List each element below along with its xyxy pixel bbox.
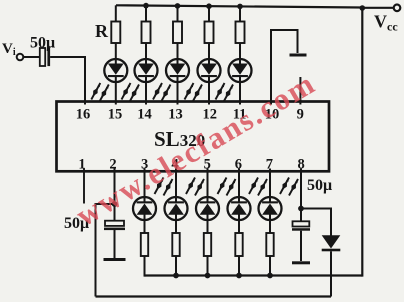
- wire LED to resistor R8: [207, 214, 209, 233]
- resistor R10 (bottom row, pin 7): [266, 233, 273, 256]
- LED bottom row at pin 6: [228, 197, 251, 220]
- wire pin 8 down: [300, 169, 302, 221]
- resistor R9 (bottom row, pin 6): [235, 233, 242, 256]
- wire pin 1 stub: [83, 169, 85, 204]
- wire resistor R4 to LED: [208, 43, 210, 65]
- svg-text:2: 2: [109, 157, 116, 173]
- wire resistor R1 to LED: [115, 43, 117, 65]
- wire pin 4 to LED: [175, 169, 177, 203]
- wire pin 3 to LED: [144, 169, 146, 203]
- light emission arrows of LED pin 5: [218, 178, 236, 196]
- wire LED cathode to pin 15: [115, 76, 117, 105]
- svg-text:14: 14: [137, 107, 152, 123]
- wire C2 to ground: [114, 230, 116, 258]
- wire LED cathode to pin 14: [145, 76, 147, 105]
- wire LED cathode to pin 12: [208, 76, 210, 105]
- ground symbol at pin 10: [290, 54, 307, 57]
- terminal Vcc: [394, 5, 401, 12]
- wire bottom rail: [96, 295, 332, 297]
- label SL320: [154, 127, 205, 151]
- wire rail to resistor R2: [145, 6, 147, 22]
- node junction dot at pin 8: [298, 206, 304, 212]
- light emission arrows of LED pin 13: [153, 83, 171, 101]
- resistor R2 (top row, pin 14): [142, 22, 151, 44]
- light emission arrows of LED pin 3: [155, 178, 173, 196]
- wire resistor R9 to mid rail: [238, 256, 240, 277]
- wire resistor R7 to mid rail: [175, 256, 177, 277]
- label Vi: [2, 41, 16, 58]
- svg-text:16: 16: [76, 107, 91, 123]
- svg-text:R: R: [95, 21, 109, 41]
- wire resistor R10 to mid rail: [269, 256, 271, 277]
- wire pin 5 to LED: [207, 169, 209, 203]
- svg-text:15: 15: [108, 107, 123, 123]
- label 50u for C3: [307, 177, 332, 194]
- wire C1 to pin 16: [50, 57, 85, 105]
- resistor R3 (top row, pin 13): [173, 22, 182, 44]
- svg-text:13: 13: [168, 107, 183, 123]
- LED bottom row at pin 7: [259, 197, 282, 220]
- wire LED cathode to pin 13: [177, 76, 179, 105]
- svg-text:50μ: 50μ: [30, 35, 55, 52]
- node junction dot at pin 2: [112, 201, 118, 207]
- resistor R6 (bottom row, pin 3): [141, 233, 148, 256]
- wire pin 7 to LED: [269, 169, 271, 203]
- label R: [95, 21, 109, 41]
- wire Vi terminal to C1: [23, 56, 39, 58]
- LED bottom row at pin 3: [133, 197, 156, 220]
- wire pin 2 down: [114, 169, 116, 222]
- label 50u for C2: [64, 215, 89, 232]
- capacitor C1 50u input coupling: [40, 48, 50, 67]
- wire LED to resistor R9: [238, 214, 240, 233]
- wire Vcc vertical rail: [361, 8, 363, 277]
- ground symbol below C3: [292, 261, 310, 264]
- op-amp IC U1 SL320 box: [57, 102, 330, 172]
- wire resistor R2 to LED: [145, 43, 147, 65]
- wire pin 6 to LED: [238, 169, 240, 203]
- light emission arrows of LED pin 7: [280, 178, 298, 196]
- wire LED to resistor R6: [144, 214, 146, 233]
- LED top row at pin 14: [135, 59, 158, 82]
- light emission arrows of LED pin 15: [91, 83, 109, 101]
- LED top row at pin 15: [104, 59, 127, 82]
- label Vcc: [374, 12, 398, 34]
- LED top row at pin 13: [166, 59, 189, 82]
- resistor R1 (top row, pin 15): [111, 22, 120, 44]
- resistor R7 (bottom row, pin 4): [172, 233, 179, 256]
- svg-text:50μ: 50μ: [307, 177, 332, 194]
- ground symbol below C2: [104, 258, 126, 261]
- LED bottom row at pin 4: [165, 197, 188, 220]
- resistor R4 (top row, pin 12): [205, 22, 214, 44]
- wire resistor R5 to LED: [239, 43, 241, 65]
- light emission arrows of LED pin 6: [249, 178, 267, 196]
- light emission arrows of LED pin 11: [216, 83, 234, 101]
- wire C3 to ground: [300, 231, 302, 261]
- wire pin 8 node to diode D1: [301, 209, 331, 236]
- wire pin 9 stub: [299, 77, 301, 105]
- wire pin 2 node to bottom rail: [96, 204, 115, 297]
- pin numbers top row 16..9: [76, 107, 304, 123]
- wire rail to resistor R3: [177, 6, 179, 22]
- wire rail to resistor R1: [115, 5, 117, 22]
- wire pin 10 to ground: [271, 30, 298, 105]
- wire resistor R8 to mid rail: [207, 256, 209, 277]
- wire diode D1 to bottom rail: [330, 251, 332, 296]
- wire rail to resistor R4: [208, 6, 210, 22]
- wire rail to resistor R5: [239, 6, 241, 22]
- light emission arrows of LED pin 14: [122, 83, 140, 101]
- wire top supply rail: [116, 5, 394, 8]
- node junction dots on middle rail: [173, 273, 273, 279]
- resistor R5 (top row, pin 11): [236, 22, 245, 44]
- watermark www.elecfans.com: [70, 65, 322, 233]
- pin numbers bottom row 1..8: [78, 157, 304, 173]
- wire resistor R6 to mid rail: [144, 256, 146, 277]
- light emission arrows of LED pin 12: [185, 83, 203, 101]
- wire middle rail: [145, 274, 363, 276]
- resistor R8 (bottom row, pin 5): [204, 233, 211, 256]
- light emission arrows of LED pin 4: [186, 178, 204, 196]
- LED top row at pin 12: [198, 59, 221, 82]
- wire LED cathode to pin 11: [239, 76, 241, 105]
- wire LED to resistor R10: [269, 214, 271, 233]
- node junction dots on top rail: [143, 3, 365, 11]
- diode D1: [322, 235, 341, 251]
- wire LED to resistor R7: [175, 214, 177, 233]
- wire resistor R3 to LED: [177, 43, 179, 65]
- LED bottom row at pin 5: [196, 197, 219, 220]
- capacitor C2 50u at pin 2: [104, 221, 125, 230]
- LED top row at pin 11: [229, 59, 252, 82]
- capacitor C3 50u at pin 8: [292, 221, 310, 230]
- input terminal Vi: [17, 54, 24, 61]
- label 50u for C1: [30, 35, 55, 52]
